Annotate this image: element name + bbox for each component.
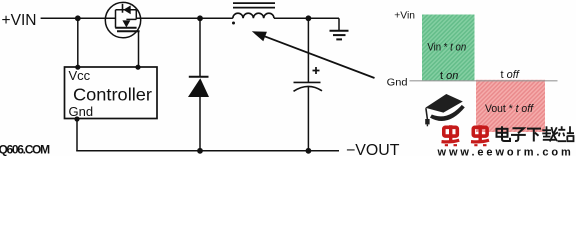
svg-text:Gnd: Gnd: [387, 77, 408, 89]
watermark tassel: [426, 108, 428, 119]
ground bar 1: [330, 30, 349, 32]
wire Vcc: [77, 18, 79, 67]
transistor Q1 substrate link: [126, 18, 136, 20]
watermark chongchong char 1: [442, 125, 460, 145]
wire controller Gnd down: [76, 119, 78, 151]
wire bottom rail: [76, 150, 339, 152]
diode body cathode bar: [122, 4, 124, 13]
transistor Q1 top bar: [116, 9, 137, 11]
svg-text:Controller: Controller: [73, 84, 152, 104]
watermark char zai: [542, 126, 558, 141]
node A junction +VIN/Vcc: [75, 15, 81, 21]
wire to ground symbol: [338, 18, 340, 30]
node dot Vcc pin: [75, 65, 80, 70]
wire drain rail to inductor: [136, 17, 233, 19]
capacitor C1 top plate: [294, 81, 321, 83]
controller U1 box: [65, 67, 158, 119]
svg-text:+VIN: +VIN: [2, 12, 37, 29]
node junction cap/bottom rail: [306, 148, 312, 154]
wire inductor to ground corner: [274, 17, 339, 19]
annotation arrow head: [252, 31, 267, 41]
waveform pink area Vout*toff: [476, 80, 545, 132]
transistor Q1 substrate arrow: [122, 20, 130, 27]
wire diode top: [199, 18, 201, 76]
svg-text:t off: t off: [501, 69, 520, 81]
node dot gate pin: [135, 65, 140, 70]
svg-text:Gnd: Gnd: [69, 104, 94, 119]
node junction diode/rail: [197, 15, 203, 21]
watermark graduation cap base: [432, 106, 463, 118]
svg-text:Vin * t on: Vin * t on: [427, 42, 466, 54]
transistor Q1 channel bar: [115, 27, 136, 29]
node dot below inductor: [232, 22, 235, 25]
node junction diode/bottom rail: [197, 148, 203, 154]
svg-text:−VOUT: −VOUT: [346, 142, 400, 156]
watermark chongchong char 2: [471, 125, 489, 145]
inductor L1 winding: [233, 13, 274, 18]
svg-text:www.eeworm.com: www.eeworm.com: [437, 147, 574, 156]
svg-text:+Vin: +Vin: [394, 10, 415, 22]
watermark char xia: [527, 129, 541, 142]
wire diode bottom: [199, 96, 201, 151]
svg-text:Vcc: Vcc: [69, 68, 91, 83]
ground bar 3: [336, 38, 342, 40]
node junction cap/rail: [306, 15, 312, 21]
capacitor C1 curved plate: [294, 86, 323, 91]
annotation arrow line: [259, 34, 375, 78]
inductor L1 core bar 1: [233, 2, 275, 4]
svg-text:Q606.COM: Q606.COM: [0, 142, 50, 156]
watermark char zi: [511, 128, 526, 141]
waveform green area Vin*ton: [422, 15, 475, 82]
wire capacitor branch: [307, 18, 309, 151]
inductor L1 core bar 2: [233, 7, 275, 9]
watermark graduation cap swoosh: [429, 103, 462, 115]
transistor Q1 gate bar: [117, 30, 140, 32]
watermark graduation cap board: [425, 94, 463, 113]
transistor Q1 source tap: [115, 10, 117, 28]
diode body triangle: [123, 5, 130, 14]
ground bar 2: [333, 34, 346, 36]
transistor Q1 circle: [105, 2, 140, 37]
wire +VIN rail to MOSFET source: [41, 17, 116, 19]
waveform Gnd axis line: [410, 80, 558, 82]
diode D1 triangle: [188, 78, 209, 97]
svg-text:t on: t on: [440, 70, 458, 82]
transistor Q1 drain tap: [135, 10, 137, 20]
watermark char zhan: [558, 126, 575, 141]
wire gate to controller: [138, 31, 140, 67]
watermark tassel knob: [425, 119, 429, 124]
node dot Gnd pin: [74, 116, 79, 121]
capacitor C1 plus sign: [313, 67, 320, 74]
svg-text:Vout * t off: Vout * t off: [485, 103, 534, 115]
diode D1 cathode bar: [189, 76, 209, 78]
watermark char dian: [497, 126, 511, 141]
